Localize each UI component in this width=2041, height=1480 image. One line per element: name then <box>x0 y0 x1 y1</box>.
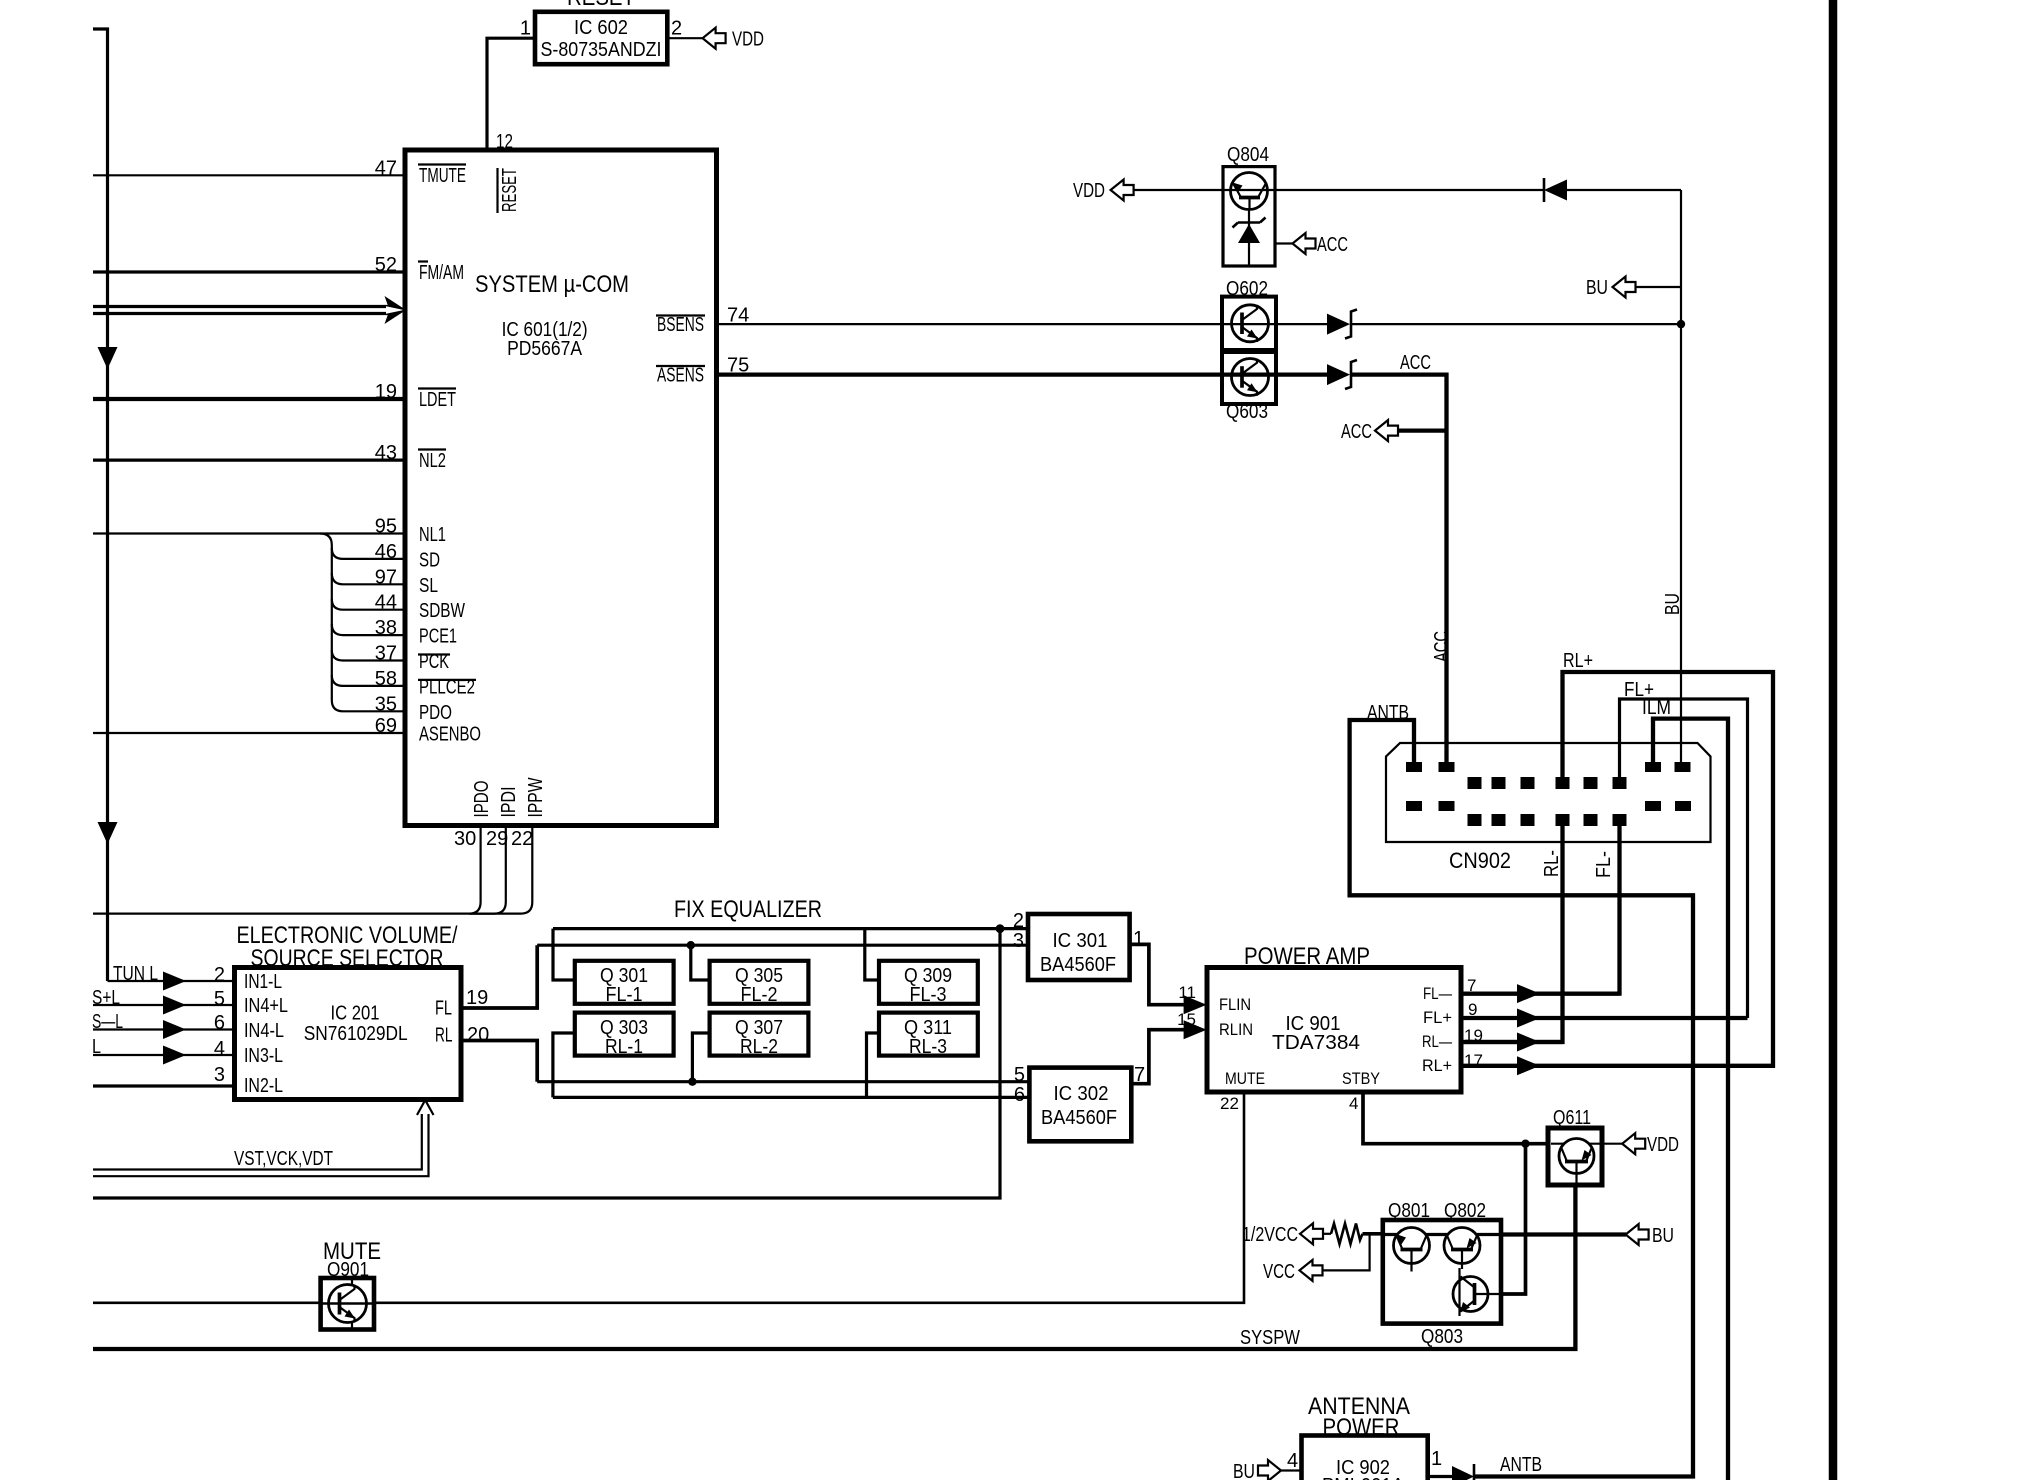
svg-text:2: 2 <box>214 964 225 986</box>
node junction dot BU rail / Q602 line <box>1677 320 1685 328</box>
wire SDBW pin44 hook <box>332 599 405 610</box>
wire BU line from box to arrow <box>1501 1232 1626 1236</box>
resistor R1 on 1/2VCC line <box>1323 1233 1331 1235</box>
wire PLLCE2 pin58 hook <box>332 675 405 686</box>
transistor Q801 <box>1394 1228 1430 1264</box>
svg-text:30: 30 <box>454 828 476 850</box>
svg-text:VCC: VCC <box>1263 1261 1295 1283</box>
zener diode in Q804 <box>1248 210 1250 267</box>
wire Q602 output through diode to BU rail <box>1276 323 1327 325</box>
wire VDD line from arrow to Q804 <box>1133 189 1224 191</box>
svg-text:SYSPW: SYSPW <box>1240 1327 1300 1349</box>
svg-text:IC 602: IC 602 <box>574 17 628 39</box>
svg-text:19: 19 <box>466 987 488 1009</box>
wire IC602 pin1 to IC601 pin12 <box>487 38 535 150</box>
svg-text:IN4-L: IN4-L <box>244 1020 284 1042</box>
svg-text:BSENS: BSENS <box>657 314 704 336</box>
svg-text:FL-2: FL-2 <box>741 984 778 1006</box>
transistor Q307 RL-2 box <box>710 1013 809 1056</box>
transistor Q301 FL-1 box <box>575 961 674 1004</box>
svg-text:43: 43 <box>375 442 397 464</box>
wire IPPW pin22 drop <box>470 828 532 914</box>
svg-text:22: 22 <box>511 828 533 850</box>
node down-arrow on left bus (lower) <box>98 822 118 844</box>
svg-text:BU: BU <box>1233 1461 1255 1480</box>
svg-text:FL—: FL— <box>1423 984 1452 1003</box>
svg-text:CN902: CN902 <box>1449 848 1511 873</box>
svg-text:RL: RL <box>435 1025 453 1047</box>
svg-text:2: 2 <box>671 17 682 39</box>
wire base line through box <box>1383 1233 1501 1236</box>
wire IC902 pin1 to diode <box>1428 1475 1459 1478</box>
transistor Q802 <box>1444 1228 1480 1264</box>
svg-text:PMI-001A: PMI-001A <box>1322 1475 1405 1480</box>
node VDD off-page arrow at Q611 <box>1622 1133 1645 1154</box>
svg-text:12: 12 <box>496 131 513 153</box>
svg-text:ANTB: ANTB <box>1367 702 1409 724</box>
svg-text:BA4560F: BA4560F <box>1040 954 1116 976</box>
svg-text:2: 2 <box>1013 910 1024 932</box>
wire LDET pin19 <box>93 397 405 401</box>
wire FM/AM pin52 <box>93 270 405 273</box>
svg-text:4: 4 <box>214 1038 225 1060</box>
svg-text:RL-2: RL-2 <box>740 1036 778 1058</box>
svg-text:1: 1 <box>1133 928 1144 950</box>
svg-text:Q603: Q603 <box>1226 401 1268 423</box>
wire data bus pair into IC601 with open arrowhead <box>93 305 392 308</box>
svg-text:TMUTE: TMUTE <box>419 165 466 187</box>
wire BU vertical rail down to CN902 <box>1680 190 1682 764</box>
wire input to IN2-L <box>93 1084 235 1087</box>
svg-text:44: 44 <box>375 592 397 614</box>
svg-text:VST,VCK,VDT: VST,VCK,VDT <box>234 1148 333 1170</box>
wire FL- from pin down to power amp FL- line <box>1461 822 1620 994</box>
wire left vertical bus with top stub <box>93 29 108 981</box>
connector pin pads row 2 outer groups <box>1406 801 1422 811</box>
op-amp U1 : IC601 system microcomputer box <box>405 150 717 826</box>
wire serial-out bus below IC601 <box>93 912 470 914</box>
svg-text:IC 201: IC 201 <box>331 1003 380 1025</box>
wire ACC vertical into pin (stub inside connector) <box>1444 741 1448 764</box>
wire BU vertical into pin (stub inside connector) <box>1680 741 1682 764</box>
wire SL pin97 hook <box>332 573 405 584</box>
connector pin pads center row lower <box>1468 814 1482 826</box>
transistor Q603 <box>1222 352 1276 404</box>
svg-text:PD5667A: PD5667A <box>507 338 583 360</box>
svg-text:FL-3: FL-3 <box>910 984 947 1006</box>
wire ILM line from bottom of page to pin <box>1653 719 1728 1480</box>
wire Q804 collector line to diode and BU rail <box>1275 189 1543 191</box>
svg-text:69: 69 <box>375 715 397 737</box>
svg-text:RESET: RESET <box>567 0 635 11</box>
wire TMUTE pin47 <box>93 174 405 176</box>
svg-text:FL+: FL+ <box>1423 1008 1452 1027</box>
transistor Q303 RL-1 box <box>575 1013 674 1056</box>
transistor Q305 FL-2 box <box>710 961 809 1004</box>
wire SYSPW line to Q611 base <box>93 1184 1575 1349</box>
wire S-L input to IN4-L <box>93 1028 235 1030</box>
svg-text:PDO: PDO <box>419 702 452 724</box>
svg-text:SL: SL <box>419 575 438 597</box>
wire Q307 stub to rail5 <box>692 1033 709 1082</box>
svg-text:19: 19 <box>375 381 397 403</box>
wire Q803 collector to STBY junction <box>1501 1144 1526 1294</box>
svg-text:37: 37 <box>375 643 397 665</box>
wire RL+ from power amp up and into pin <box>1461 672 1773 1066</box>
svg-text:Q804: Q804 <box>1227 144 1269 166</box>
svg-text:RL+: RL+ <box>1563 650 1593 672</box>
svg-text:IN2-L: IN2-L <box>244 1075 283 1097</box>
wire IC302 pin7 to RLIN <box>1131 1030 1194 1084</box>
svg-text:ASENS: ASENS <box>657 365 704 387</box>
svg-text:FIX EQUALIZER: FIX EQUALIZER <box>674 896 822 923</box>
svg-text:17: 17 <box>1464 1051 1483 1070</box>
connector CN902 outline <box>1386 743 1711 842</box>
node down-arrow on left bus (upper) <box>98 347 118 369</box>
svg-text:SD: SD <box>419 549 440 571</box>
wire ANTB detour path around connector to IC902 <box>1350 720 1693 1477</box>
svg-text:STBY: STBY <box>1342 1069 1380 1088</box>
svg-text:RL+: RL+ <box>1422 1056 1452 1075</box>
svg-text:RL-3: RL-3 <box>909 1036 947 1058</box>
diode D2 after Q602 (zener, pointing right) <box>1327 314 1350 335</box>
wire rail pin2 of IC301 <box>553 927 1028 930</box>
svg-text:4: 4 <box>1349 1094 1358 1113</box>
svg-text:NL1: NL1 <box>419 524 446 546</box>
wire RL- from pin down to power amp RL- line <box>1461 822 1563 1042</box>
wire SD pin46 hook <box>332 548 405 559</box>
svg-text:RL-: RL- <box>1541 850 1563 877</box>
svg-text:LDET: LDET <box>419 389 456 411</box>
svg-text:1: 1 <box>520 17 531 39</box>
wire VCC branch from resistor node <box>1323 1234 1370 1271</box>
svg-text:ACC: ACC <box>1431 631 1453 662</box>
wire page fold border line <box>1829 0 1838 1480</box>
wire Q303 stub to rail6 <box>553 1033 575 1097</box>
svg-text:3: 3 <box>214 1064 225 1086</box>
page fold border <box>1829 0 1838 1480</box>
svg-text:S—L: S—L <box>92 1011 123 1033</box>
node BU off-page arrow (lower) <box>1626 1224 1649 1245</box>
svg-text:IPDO: IPDO <box>471 781 493 818</box>
node junction dot at FIX EQ rail <box>996 924 1005 933</box>
svg-text:IN3-L: IN3-L <box>244 1045 283 1067</box>
node VDD off-page arrow <box>703 28 726 49</box>
svg-text:IN4+L: IN4+L <box>244 995 288 1017</box>
op-amp U4 : IC901 box <box>1207 968 1461 1093</box>
svg-text:5: 5 <box>214 988 225 1010</box>
wire ASENBO pin69 <box>93 732 405 734</box>
svg-text:ACC: ACC <box>1341 421 1372 443</box>
wire STBY pin4 to Q611 <box>1363 1092 1549 1144</box>
svg-text:VDD: VDD <box>1647 1134 1679 1156</box>
wire FL+ from power amp up and into pin <box>1461 1016 1748 1020</box>
svg-text:IPDI: IPDI <box>498 787 520 818</box>
node ACC off-page arrow right of Q804 <box>1275 242 1292 244</box>
node junction dot STBY / Q803 branch <box>1521 1140 1529 1148</box>
connector pin pads row 1 <box>1406 762 1422 772</box>
svg-text:97: 97 <box>375 566 397 588</box>
wire PCK pin37 hook <box>332 650 405 661</box>
wire Q305 stub to rail3 <box>691 945 710 980</box>
svg-text:S-80735ANDZI: S-80735ANDZI <box>541 39 662 61</box>
svg-text:35: 35 <box>375 693 397 715</box>
op-amp U3 : IC201 box <box>235 968 462 1100</box>
op-amp U5 : IC902 box (clipped at bottom) <box>1302 1436 1428 1480</box>
diode D4 ANTB (pointing right) <box>1452 1466 1474 1480</box>
transistor Q311 RL-3 box <box>879 1013 978 1056</box>
svg-text:TUN L: TUN L <box>113 963 158 985</box>
svg-text:29: 29 <box>486 828 508 850</box>
svg-text:1/2VCC: 1/2VCC <box>1242 1224 1298 1246</box>
svg-text:6: 6 <box>1014 1084 1025 1106</box>
svg-text:22: 22 <box>1220 1094 1239 1113</box>
diode D3 after Q603 (zener, pointing right) <box>1327 364 1350 385</box>
svg-text:52: 52 <box>375 254 397 276</box>
wire RL from IC201 down to rail 5 <box>461 1041 537 1082</box>
op-amp IC301 box <box>1028 914 1130 980</box>
svg-text:95: 95 <box>375 516 397 538</box>
transistor Q803 <box>1453 1277 1488 1312</box>
wire FL from IC201 up to rail 3 <box>461 945 537 1008</box>
wire Q603 output through diode to ACC corner <box>1276 372 1327 376</box>
svg-text:RL—: RL— <box>1422 1032 1452 1051</box>
svg-text:ASENBO: ASENBO <box>419 723 481 745</box>
svg-text:BA4560F: BA4560F <box>1041 1107 1117 1129</box>
svg-text:3: 3 <box>1013 930 1024 952</box>
svg-text:1: 1 <box>1431 1448 1442 1470</box>
wire PDO pin35 hook <box>332 700 405 711</box>
wire IC301 pin1 to FLIN <box>1130 944 1194 1004</box>
svg-text:IC 301: IC 301 <box>1053 930 1108 952</box>
wire PCE1 pin38 hook <box>332 624 405 635</box>
wire ASENS line from IC601 to Q603 <box>716 372 1222 376</box>
svg-text:VDD: VDD <box>732 29 764 51</box>
wire S+L input to IN4+L <box>93 1004 235 1006</box>
wire rail pin6 of IC302 <box>553 1096 1030 1099</box>
svg-text:BU: BU <box>1586 277 1608 299</box>
connector pin pads center row upper <box>1468 777 1482 789</box>
svg-text:9: 9 <box>1468 1000 1477 1019</box>
wire MUTE control line to IC901 pin22 <box>93 1092 1244 1303</box>
svg-text:ACC: ACC <box>1317 234 1348 256</box>
svg-text:RLIN: RLIN <box>1219 1020 1253 1039</box>
svg-text:S+L: S+L <box>92 987 120 1009</box>
wire NL1 pin95 with branch curve to serial bundle <box>93 532 405 534</box>
svg-text:ANTB: ANTB <box>1500 1454 1542 1476</box>
wire IC602 pin2 to VDD <box>667 37 702 39</box>
wire Q309 stub to rail2 <box>865 929 879 980</box>
svg-text:46: 46 <box>375 541 397 563</box>
svg-text:MUTE: MUTE <box>1225 1069 1265 1088</box>
wire BSENS line from IC601 to Q602 <box>716 323 1222 325</box>
svg-text:11: 11 <box>1178 983 1196 1002</box>
svg-text:SYSTEM µ-COM: SYSTEM µ-COM <box>475 271 629 298</box>
svg-text:PCE1: PCE1 <box>419 626 457 648</box>
svg-text:IC 302: IC 302 <box>1054 1083 1109 1105</box>
op-amp U2 : IC602 reset IC box <box>535 12 667 64</box>
svg-text:SDBW: SDBW <box>419 600 465 622</box>
svg-text:38: 38 <box>375 617 397 639</box>
svg-text:FL-1: FL-1 <box>606 984 643 1006</box>
svg-text:Q803: Q803 <box>1421 1326 1463 1348</box>
svg-text:RESET: RESET <box>499 168 521 212</box>
svg-text:L: L <box>92 1036 101 1058</box>
wire ANTB stub into pin <box>1412 743 1415 764</box>
svg-text:IN1-L: IN1-L <box>244 971 282 993</box>
svg-text:IPPW: IPPW <box>525 777 547 817</box>
svg-text:TDA7384: TDA7384 <box>1272 1032 1360 1054</box>
wire rail pin5 of IC302 <box>537 1080 1029 1083</box>
svg-text:47: 47 <box>375 157 397 179</box>
svg-text:4: 4 <box>1287 1450 1298 1472</box>
svg-text:RL-1: RL-1 <box>605 1036 643 1058</box>
svg-text:FM/AM: FM/AM <box>419 262 464 284</box>
svg-text:SN761029DL: SN761029DL <box>304 1023 408 1045</box>
svg-text:NL2: NL2 <box>419 450 446 472</box>
svg-text:5: 5 <box>1014 1064 1025 1086</box>
wire IPDI pin29 drop <box>470 828 506 914</box>
op-amp IC302 box <box>1029 1068 1131 1142</box>
wire NL2 pin43 <box>93 459 405 462</box>
diode D1 on VDD line (cathode left) <box>1544 180 1567 201</box>
svg-text:BU: BU <box>1652 1225 1674 1247</box>
wire Q311 stub to rail6 <box>867 1033 880 1097</box>
svg-text:VDD: VDD <box>1073 180 1105 202</box>
wire IPDO pin30 drop <box>469 828 481 914</box>
svg-text:ACC: ACC <box>1400 352 1431 374</box>
wire long bus to FIX EQ rail <box>93 929 1000 1198</box>
transistor Q309 FL-3 box <box>879 961 978 1004</box>
wire VST,VCK,VDT control bus into IC201 <box>93 1114 422 1170</box>
svg-text:20: 20 <box>467 1024 489 1046</box>
svg-text:58: 58 <box>375 668 397 690</box>
wire TUN L input to IN1-L <box>108 980 235 982</box>
svg-text:FL: FL <box>435 998 452 1020</box>
wire rail pin3 of IC301 <box>537 944 1028 947</box>
svg-text:FL-: FL- <box>1593 851 1615 878</box>
svg-text:BU: BU <box>1662 593 1684 615</box>
wire L input to IN3-L <box>93 1054 235 1056</box>
wire Q301 stub to rail2 <box>553 929 575 980</box>
svg-text:FLIN: FLIN <box>1219 995 1251 1014</box>
svg-text:15: 15 <box>1177 1010 1196 1029</box>
svg-text:6: 6 <box>214 1012 225 1034</box>
